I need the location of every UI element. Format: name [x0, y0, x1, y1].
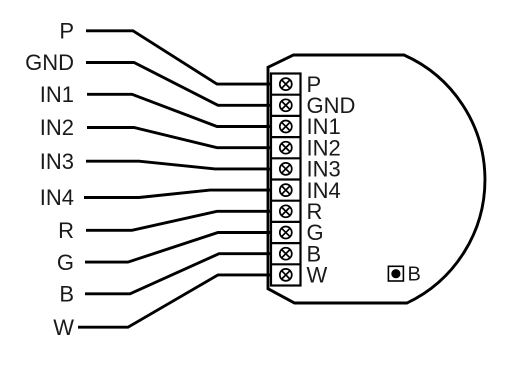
svg-text:P: P — [59, 19, 74, 44]
screw terminal 3 (IN1) — [280, 121, 292, 133]
svg-text:W: W — [53, 315, 74, 340]
device outline — [268, 55, 485, 303]
svg-text:GND: GND — [25, 50, 74, 75]
terminal block — [271, 74, 301, 286]
wire IN3 — [86, 161, 271, 169]
svg-text:B: B — [59, 282, 74, 307]
screw terminal 4 (IN2) — [280, 142, 292, 154]
svg-text:W: W — [307, 263, 328, 288]
svg-text:IN4: IN4 — [40, 185, 74, 210]
screw terminal 7 (R) — [280, 205, 292, 217]
wire IN2 — [87, 128, 271, 148]
screw terminal 10 (W) — [280, 269, 292, 281]
wire G — [85, 233, 271, 263]
wire P — [86, 31, 271, 84]
svg-text:IN2: IN2 — [40, 115, 74, 140]
svg-text:IN1: IN1 — [40, 82, 74, 107]
screw terminal 8 (G) — [280, 227, 292, 239]
screw terminal 2 (GND) — [280, 99, 292, 111]
wire IN1 — [87, 94, 271, 126]
svg-text:B: B — [408, 264, 421, 286]
svg-text:R: R — [58, 218, 74, 243]
wire B — [85, 254, 271, 294]
wire GND — [86, 63, 271, 106]
svg-text:IN3: IN3 — [40, 149, 74, 174]
screw terminal 1 (P) — [280, 78, 292, 90]
screw terminal 6 (IN4) — [280, 184, 292, 196]
screw terminal 9 (B) — [280, 248, 292, 260]
wire IN4 — [84, 190, 271, 197]
screw terminal 5 (IN3) — [280, 163, 292, 175]
wire W — [78, 275, 271, 327]
button B — [388, 264, 420, 286]
wire R — [86, 211, 271, 230]
svg-text:G: G — [57, 250, 74, 275]
